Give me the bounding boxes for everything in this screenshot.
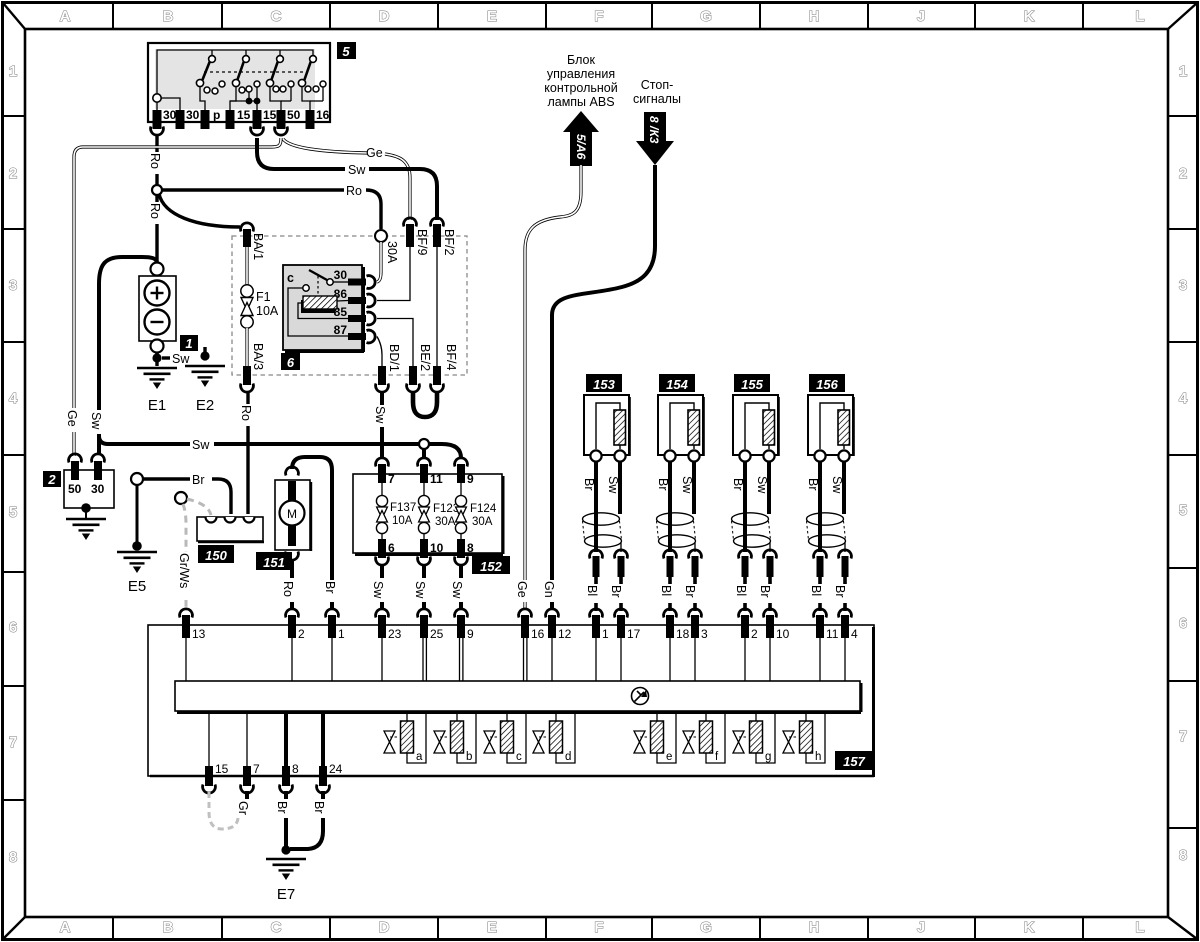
svg-text:Sw: Sw	[830, 476, 844, 494]
svg-text:7: 7	[9, 734, 17, 751]
svg-text:2: 2	[751, 627, 758, 641]
switch 4	[298, 56, 326, 111]
wire BF/2 to BF/4	[436, 247, 438, 366]
svg-text:9: 9	[467, 627, 474, 641]
svg-text:BF/9: BF/9	[415, 229, 429, 255]
svg-text:L: L	[1135, 8, 1144, 25]
svg-text:10A: 10A	[392, 515, 413, 527]
pins of block 5	[153, 110, 315, 129]
svg-text:E: E	[487, 8, 497, 25]
svg-text:Sw: Sw	[371, 581, 385, 599]
svg-text:25: 25	[430, 627, 444, 641]
svg-text:Bl: Bl	[809, 585, 823, 596]
svg-text:Br: Br	[758, 585, 772, 598]
internal bus bar	[175, 681, 861, 713]
svg-text:Ro: Ro	[239, 405, 253, 421]
dashed box 6	[232, 236, 467, 375]
ground E2	[185, 366, 225, 387]
wire BA/1 to F1	[245, 247, 248, 285]
connectors 156 to pins 11 4	[809, 548, 851, 611]
svg-text:g: g	[765, 751, 771, 763]
svg-text:Sw: Sw	[348, 163, 366, 177]
svg-text:150: 150	[205, 548, 227, 563]
pin labels of block 5	[163, 108, 330, 122]
wires bar to bottom pins	[209, 713, 323, 766]
wheel sensor 156	[808, 395, 854, 462]
connector circle Gr/Ws	[175, 492, 187, 504]
ground E1	[137, 368, 177, 389]
sensor 155 wires Br Sw	[731, 462, 769, 515]
svg-text:157: 157	[843, 754, 865, 769]
svg-text:Bl: Bl	[734, 585, 748, 596]
wire junction to BA/1	[159, 194, 240, 227]
svg-text:15: 15	[263, 108, 277, 122]
svg-text:C: C	[271, 8, 282, 25]
branch to fuse pin 11	[422, 449, 426, 459]
svg-text:155: 155	[741, 377, 763, 392]
relay terminal pins 30 86 85 87	[348, 279, 366, 341]
svg-text:16: 16	[531, 627, 545, 641]
svg-text:D: D	[379, 8, 390, 25]
stub Gr from pin 7	[236, 791, 250, 815]
sensor 156 wires Br Sw	[806, 462, 844, 515]
svg-text:J: J	[917, 919, 925, 936]
svg-text:87: 87	[334, 323, 348, 337]
svg-text:Ro: Ro	[346, 184, 362, 198]
wire Br pin 24 to E7	[290, 791, 326, 849]
svg-text:153: 153	[593, 377, 615, 392]
svg-text:Br: Br	[656, 478, 670, 491]
svg-text:7: 7	[1179, 728, 1187, 745]
connectors 153 to pins 1 17	[585, 548, 627, 611]
svg-text:Sw: Sw	[680, 476, 694, 494]
relay switch	[309, 270, 348, 294]
svg-text:30: 30	[163, 108, 177, 122]
wire Ro junction to battery	[148, 195, 164, 263]
component 150	[197, 517, 264, 542]
badge 157	[835, 751, 873, 770]
Sw bus horizontal	[99, 436, 461, 458]
svg-text:23: 23	[388, 627, 402, 641]
wire motor bottom Ro to pin 2	[281, 559, 295, 610]
valve a	[384, 713, 426, 763]
svg-text:10A: 10A	[256, 304, 279, 318]
svg-text:F1: F1	[256, 290, 271, 304]
badge 156	[809, 374, 845, 392]
svg-text:h: h	[815, 751, 821, 763]
text stop signals	[633, 78, 681, 106]
svg-text:K: K	[1024, 919, 1035, 936]
wire Sw BD/1 down to fuse pin 7	[373, 391, 389, 459]
svg-text:E: E	[487, 919, 497, 936]
svg-text:30: 30	[334, 268, 348, 282]
svg-text:Sw: Sw	[413, 581, 427, 599]
svg-text:M: M	[287, 507, 297, 521]
svg-text:5: 5	[342, 44, 350, 59]
svg-text:10: 10	[430, 541, 444, 555]
svg-text:1: 1	[1179, 63, 1187, 80]
fuse box bottom pins 6 10 8	[376, 539, 474, 565]
svg-text:Sw: Sw	[172, 352, 190, 366]
fuse box top pins 7 11 9	[376, 458, 474, 486]
shield 153	[583, 513, 622, 552]
junction node	[152, 185, 162, 195]
connectors 155 to pins 2 10	[734, 548, 776, 611]
badge 153	[586, 374, 622, 392]
svg-text:BA/3: BA/3	[251, 343, 265, 370]
svg-text:A: A	[60, 919, 71, 936]
pin BF/2	[431, 218, 456, 256]
svg-text:L: L	[1135, 919, 1144, 936]
svg-text:7: 7	[388, 472, 395, 486]
ground E7	[266, 859, 306, 880]
svg-text:D: D	[379, 919, 390, 936]
badge 150	[198, 545, 234, 563]
svg-text:9: 9	[467, 472, 474, 486]
shield 155	[732, 513, 771, 552]
badge 151	[256, 552, 292, 570]
unit top pins	[180, 609, 858, 641]
internal wires pins to bar	[186, 638, 845, 681]
switch top rail wire	[157, 50, 313, 96]
wire Br pin 8 to E7	[275, 791, 289, 848]
svg-text:c: c	[287, 271, 294, 285]
pin BF/4	[431, 344, 458, 392]
pin BE/2	[407, 344, 432, 392]
wire Ge from pin 50 to component 2 and to BF/9	[65, 138, 410, 456]
wire relay 85 to BE/2	[377, 319, 413, 367]
svg-text:151: 151	[263, 555, 285, 570]
svg-text:Gr/Ws: Gr/Ws	[177, 553, 191, 588]
svg-text:E5: E5	[128, 578, 146, 595]
svg-text:Gr: Gr	[236, 801, 250, 815]
ground under component 2	[66, 519, 106, 540]
badge 155	[734, 374, 770, 392]
wire motor top to pin 1	[292, 457, 339, 610]
svg-text:2: 2	[9, 165, 17, 182]
svg-text:a: a	[416, 751, 423, 763]
svg-text:3: 3	[9, 277, 17, 294]
label Sw at E1	[162, 352, 190, 366]
svg-text:3: 3	[701, 627, 708, 641]
svg-text:Ge: Ge	[515, 581, 529, 598]
ground E5	[117, 552, 157, 573]
svg-text:H: H	[809, 919, 820, 936]
svg-text:2: 2	[298, 627, 305, 641]
svg-text:15: 15	[215, 762, 229, 776]
svg-text:BF/4: BF/4	[444, 344, 458, 370]
connectors 154 to pins 18 3	[659, 548, 701, 611]
valve d	[533, 713, 575, 763]
Sw stubs from fuse box to unit pins 23 25 9	[371, 564, 464, 610]
wire Ge from 5/A6 to pin 16	[515, 165, 581, 610]
ground junction dot E7	[281, 845, 290, 854]
svg-text:1: 1	[9, 63, 17, 80]
svg-text:G: G	[700, 919, 712, 936]
svg-text:8: 8	[292, 762, 299, 776]
svg-text:F137: F137	[390, 502, 416, 514]
svg-text:1: 1	[185, 336, 192, 351]
svg-text:17: 17	[627, 627, 641, 641]
svg-text:Br: Br	[275, 801, 289, 814]
svg-text:Sw: Sw	[89, 412, 103, 430]
svg-text:BE/2: BE/2	[418, 344, 432, 371]
svg-text:Bl: Bl	[585, 585, 599, 596]
svg-text:8: 8	[467, 541, 474, 555]
svg-text:Br: Br	[582, 478, 596, 491]
wheel sensor 155	[733, 395, 779, 462]
svg-text:Ro: Ro	[148, 203, 162, 219]
svg-text:Br: Br	[683, 585, 697, 598]
svg-text:Br: Br	[731, 478, 745, 491]
svg-text:Ge: Ge	[366, 146, 383, 160]
unit bottom pins 15 7 8 24	[203, 762, 343, 793]
fuse F137 10A	[376, 483, 416, 539]
svg-text:12: 12	[558, 627, 572, 641]
svg-text:Br: Br	[312, 801, 326, 814]
svg-text:Sw: Sw	[373, 406, 387, 424]
badge 154	[659, 374, 695, 392]
svg-text:BF/2: BF/2	[442, 229, 456, 255]
svg-text:4: 4	[9, 390, 18, 407]
svg-text:K: K	[1024, 8, 1035, 25]
svg-text:J: J	[917, 8, 925, 25]
svg-text:30: 30	[91, 482, 105, 496]
shield 154	[657, 513, 696, 552]
svg-text:8 /К3: 8 /К3	[647, 116, 661, 144]
pin BA/1	[241, 223, 265, 260]
svg-text:A: A	[60, 8, 71, 25]
svg-text:50: 50	[287, 108, 301, 122]
svg-text:152: 152	[480, 559, 502, 574]
svg-text:E7: E7	[277, 886, 295, 903]
switch contact dashed line	[204, 71, 306, 73]
valve b	[434, 713, 476, 763]
battery 1	[139, 263, 176, 353]
svg-text:Br: Br	[323, 581, 337, 594]
svg-text:Ge: Ge	[65, 410, 79, 427]
svg-text:156: 156	[816, 377, 838, 392]
valve c	[484, 713, 526, 763]
svg-text:H: H	[809, 8, 820, 25]
wire Ro horizontal to relay 30A	[162, 183, 381, 229]
pin BF/9	[404, 218, 429, 256]
svg-text:E2: E2	[196, 397, 214, 414]
svg-text:11: 11	[430, 472, 443, 486]
wire Br from E5 to 150	[143, 472, 231, 514]
svg-text:8: 8	[1179, 847, 1187, 864]
arrow 8/K3 down	[636, 112, 674, 165]
svg-text:F: F	[594, 8, 603, 25]
valve h	[783, 713, 825, 763]
svg-text:d: d	[565, 751, 571, 763]
svg-text:Br: Br	[609, 585, 623, 598]
svg-text:c: c	[516, 751, 522, 763]
fuse box 152	[353, 474, 503, 555]
wire Sw from pin 15 to BF/2	[257, 138, 437, 220]
fuse F1 10A	[241, 285, 279, 328]
svg-text:6: 6	[287, 355, 295, 370]
svg-text:30A: 30A	[472, 516, 493, 528]
svg-text:Стоп-: Стоп-	[641, 78, 674, 92]
svg-text:10: 10	[776, 627, 790, 641]
svg-text:F124: F124	[470, 503, 497, 515]
relay coil	[298, 296, 348, 319]
svg-text:5: 5	[1179, 502, 1187, 519]
pump symbol in bar	[632, 688, 649, 705]
fuse F123 30A	[418, 483, 459, 539]
svg-text:Br: Br	[192, 473, 205, 487]
wire Ro from pin 30 down to junction	[148, 135, 164, 185]
svg-text:Sw: Sw	[192, 438, 210, 452]
arrow 5/A6 up	[563, 111, 599, 166]
ABS control unit 157 box	[148, 625, 874, 777]
svg-text:30: 30	[186, 108, 200, 122]
text ABS control lamp unit	[544, 53, 617, 109]
badge 152	[472, 556, 510, 574]
svg-text:Ro: Ro	[148, 153, 162, 169]
svg-text:Sw: Sw	[606, 476, 620, 494]
wire 30A to relay 30	[377, 242, 381, 282]
svg-text:30A: 30A	[435, 516, 456, 528]
sensor 154 wires Br Sw	[656, 462, 694, 515]
svg-text:Bl: Bl	[659, 585, 673, 596]
switch 1	[196, 56, 225, 111]
svg-text:13: 13	[192, 627, 206, 641]
relay body 6	[283, 265, 364, 352]
junction dots 15 bridge	[246, 98, 253, 105]
motor 151	[275, 480, 311, 551]
terminal 30 junction circle	[153, 94, 161, 102]
sensor 153 wires Br Sw	[582, 462, 620, 515]
svg-text:1: 1	[602, 627, 609, 641]
svg-text:6: 6	[9, 619, 17, 636]
switch 3	[266, 56, 294, 111]
svg-text:16: 16	[316, 108, 330, 122]
wire relay 87 to BD/1	[377, 337, 382, 367]
svg-text:сигналы: сигналы	[633, 92, 681, 106]
svg-text:контрольной: контрольной	[544, 81, 617, 95]
svg-text:B: B	[163, 8, 174, 25]
svg-text:C: C	[271, 919, 282, 936]
svg-text:Sw: Sw	[450, 581, 464, 599]
svg-text:4: 4	[1179, 390, 1188, 407]
svg-text:3: 3	[1179, 277, 1187, 294]
svg-text:лампы ABS: лампы ABS	[547, 95, 614, 109]
badge 1	[180, 335, 198, 351]
valve g	[733, 713, 775, 763]
svg-text:154: 154	[666, 377, 688, 392]
svg-text:2: 2	[1179, 165, 1187, 182]
svg-text:E1: E1	[148, 397, 166, 414]
svg-text:BD/1: BD/1	[387, 344, 401, 372]
30-30 bridge wire	[161, 98, 180, 111]
svg-text:5: 5	[9, 504, 17, 521]
ground junction dot E1	[152, 353, 161, 362]
svg-text:Br: Br	[806, 478, 820, 491]
badge 2	[43, 471, 61, 487]
dashed Gr/Ws curve into 150	[187, 499, 211, 515]
svg-text:24: 24	[329, 762, 343, 776]
connector 30A	[375, 230, 399, 264]
svg-text:50: 50	[68, 482, 82, 496]
fuse F124 30A	[455, 483, 496, 539]
wire battery minus to ground	[155, 352, 158, 366]
hood above motor	[286, 467, 299, 476]
svg-text:Блок: Блок	[567, 53, 595, 67]
dashed Gr/Ws wire down to pin 13	[177, 504, 193, 610]
svg-text:e: e	[666, 751, 672, 763]
valve f	[683, 713, 725, 763]
connector hoods under block 5	[151, 127, 164, 136]
U loop BE/2 to BF/4	[413, 391, 437, 417]
svg-text:Ro: Ro	[281, 581, 295, 597]
svg-text:4: 4	[851, 627, 858, 641]
svg-text:7: 7	[253, 762, 260, 776]
svg-text:управления: управления	[547, 67, 615, 81]
svg-text:8: 8	[9, 849, 17, 866]
svg-text:1: 1	[338, 627, 345, 641]
svg-text:6: 6	[388, 541, 395, 555]
wire F1 to BA/3	[245, 328, 248, 366]
component 2 (starter terminals)	[64, 454, 114, 519]
svg-text:BA/1: BA/1	[251, 233, 265, 260]
ignition switch block 5	[148, 43, 330, 122]
wire Ro BA/3 to 150 right socket	[239, 391, 255, 514]
svg-text:6: 6	[1179, 615, 1187, 632]
valve e	[634, 713, 676, 763]
switch 2	[230, 56, 260, 111]
junction circle on Sw bus	[419, 439, 429, 449]
relay coil terminal circle	[288, 285, 348, 336]
svg-text:p: p	[213, 108, 220, 122]
svg-text:Sw: Sw	[755, 476, 769, 494]
wire E5 down	[136, 485, 139, 546]
svg-text:30A: 30A	[385, 241, 399, 264]
svg-text:18: 18	[676, 627, 690, 641]
wire relay 86 to BF/9	[377, 247, 410, 301]
svg-text:5/A6: 5/A6	[574, 134, 588, 160]
svg-text:F: F	[594, 919, 603, 936]
wheel sensor 154	[658, 395, 704, 462]
svg-text:Br: Br	[833, 585, 847, 598]
badge 5	[337, 42, 356, 59]
wire Gn from 8/K3 to pin 12	[542, 165, 655, 610]
wire Sw battery to component 2	[89, 257, 157, 455]
pin BA/3	[241, 343, 265, 392]
svg-text:B: B	[163, 919, 174, 936]
svg-text:2: 2	[47, 472, 56, 487]
shield 156	[807, 513, 846, 552]
svg-text:G: G	[700, 8, 712, 25]
svg-text:b: b	[466, 751, 472, 763]
pin BD/1	[376, 344, 401, 392]
svg-text:F123: F123	[433, 503, 459, 515]
svg-text:Gn: Gn	[542, 581, 556, 598]
ground connector E5	[131, 473, 143, 485]
gray wire from pin 15	[209, 792, 238, 829]
svg-text:15: 15	[237, 108, 251, 122]
svg-text:11: 11	[826, 627, 839, 641]
hood under motor	[286, 552, 299, 561]
wheel sensor 153	[584, 395, 630, 462]
badge 6	[281, 353, 300, 370]
ground E2 stub	[200, 347, 209, 361]
